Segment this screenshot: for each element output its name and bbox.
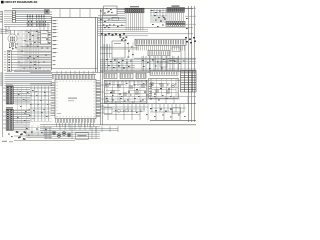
svg-text:CIRCUIT DIAGRAMS 3/3: CIRCUIT DIAGRAMS 3/3 [4,0,37,4]
